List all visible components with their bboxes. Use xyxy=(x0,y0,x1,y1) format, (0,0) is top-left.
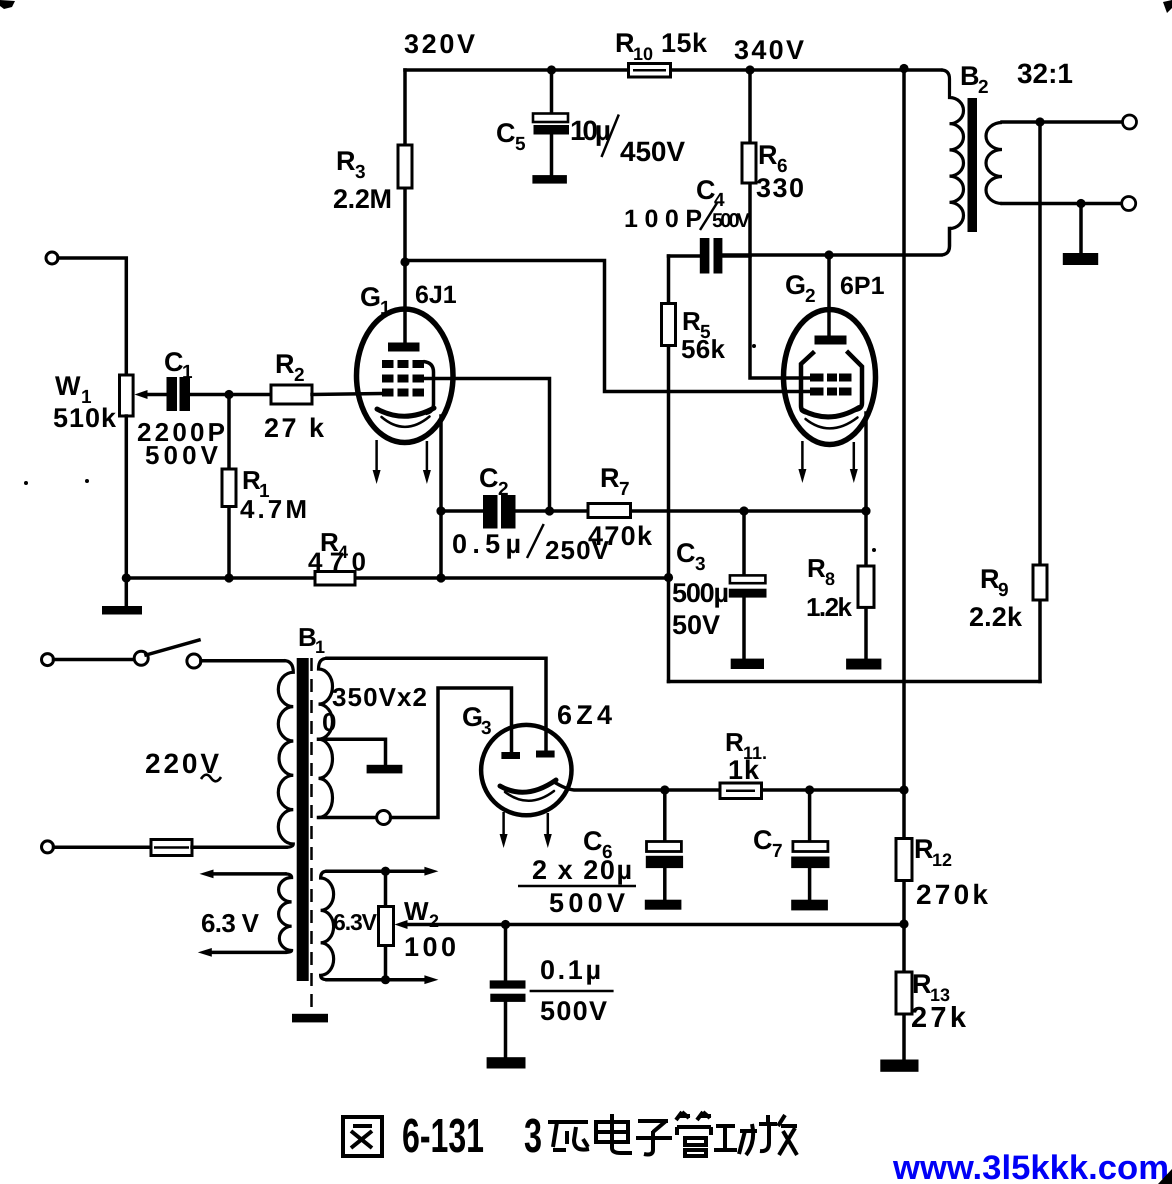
svg-text:R: R xyxy=(980,564,1000,594)
node: C7 junction xyxy=(805,785,814,794)
resistor R10 (in top rail) xyxy=(629,64,671,78)
ground: below R13 xyxy=(880,1060,918,1072)
svg-text:470: 470 xyxy=(308,547,366,577)
label: R12 270k xyxy=(914,834,988,910)
wire: G1 cathode lead down to cathode rail and ground rail xyxy=(439,416,443,578)
transformer B1 heater winding right 6.3V xyxy=(321,871,334,980)
label: B2 32:1 xyxy=(960,58,1073,98)
svg-text:15k: 15k xyxy=(661,28,708,58)
wire: HV center tap to ground xyxy=(319,739,386,765)
wire: G1 anode to G2 grid coupling run xyxy=(405,261,812,392)
svg-text:2.2k: 2.2k xyxy=(969,602,1023,632)
transformer B1 heater winding left 6.3V xyxy=(279,874,292,953)
svg-text:R: R xyxy=(600,463,620,493)
transformer B1 primary winding xyxy=(278,661,293,848)
tube G1 internal suppressor hook xyxy=(424,362,434,414)
node: G2 cathode/R8 junction xyxy=(861,506,870,515)
tube G1 cathode arc xyxy=(377,408,434,416)
label: R13 27k xyxy=(911,969,967,1034)
svg-text:W: W xyxy=(55,371,81,401)
capacitor C5 (electrolytic 10u/450V) xyxy=(533,70,569,175)
capacitor C1 (2200P/500V) xyxy=(167,377,191,411)
potentiometer W2 (hum balance 100) xyxy=(379,907,394,946)
svg-text:R: R xyxy=(336,146,356,176)
svg-text:500V: 500V xyxy=(712,210,751,232)
scan corner mark top-left xyxy=(0,0,15,9)
scan corner mark bottom-right xyxy=(1158,1169,1172,1184)
label: B1 xyxy=(298,622,325,657)
tube G3 cathode arc xyxy=(500,780,556,792)
svg-text:3: 3 xyxy=(481,718,492,739)
label: 6.3V right xyxy=(333,909,378,935)
label: R6 330 xyxy=(756,140,804,203)
svg-text:R: R xyxy=(914,834,934,864)
label: 6.3 V left xyxy=(201,908,260,938)
wire: R3 branch from 320V rail down to G1 anode xyxy=(403,70,407,262)
tube G2 heater lead right with arrow xyxy=(850,442,858,483)
resistor R11 (in B+ rail) xyxy=(720,783,762,799)
ground: below R8 xyxy=(846,659,881,670)
ground: below C6 xyxy=(645,900,682,910)
svg-text:C: C xyxy=(479,463,499,493)
label: R3 2.2M xyxy=(333,146,392,214)
svg-text:6J1: 6J1 xyxy=(415,281,457,309)
tube G1 grid dashes row 3 xyxy=(382,389,424,397)
node: W2 bottom junction xyxy=(381,975,390,984)
capacitor C6 (electrolytic 2x20u/500V) xyxy=(646,790,683,900)
svg-text:500V: 500V xyxy=(549,888,625,918)
resistor R4 (in ground rail) xyxy=(315,572,355,586)
resistor R3 xyxy=(398,145,412,188)
svg-text:6P1: 6P1 xyxy=(840,272,885,300)
label: R4 470 xyxy=(308,527,366,577)
svg-text:R: R xyxy=(758,140,778,170)
wire: fuse to B1 primary bottom xyxy=(192,846,286,850)
node: C2/screen junction xyxy=(545,506,554,515)
wire: HV bottom tap to connector xyxy=(319,816,377,820)
ground: below C7 xyxy=(791,900,828,911)
wire: G1 screen grid exit to cathode rail xyxy=(424,379,550,512)
svg-text:6.3V: 6.3V xyxy=(333,909,378,935)
wire: W2 body connections xyxy=(384,871,388,980)
wire: C1 to R2 xyxy=(190,393,271,397)
svg-text:C: C xyxy=(583,826,603,856)
tube G2 heater lead left with arrow xyxy=(798,441,806,483)
svg-text:R: R xyxy=(807,553,826,583)
wire: long vertical from top rail down to B+ rail xyxy=(902,69,906,791)
label: 0.1u/500V xyxy=(530,955,614,1026)
wire: ground rail under first stage xyxy=(126,576,668,580)
svg-text:3: 3 xyxy=(524,1110,542,1163)
tube G3 heater arc xyxy=(505,791,554,801)
tube G1 heater lead right with arrow xyxy=(423,441,431,484)
node: ground rail / feedback rail junction xyxy=(664,573,673,582)
svg-text:340V: 340V xyxy=(734,35,804,65)
node: feedback takeoff on secondary top xyxy=(1035,117,1044,126)
terminal: output bottom xyxy=(1122,197,1136,211)
tube G3 left anode plate xyxy=(501,752,520,759)
label: R10 15k xyxy=(615,28,708,64)
resistor R1 xyxy=(222,469,236,507)
transformer B1 core xyxy=(297,658,309,981)
svg-text:3: 3 xyxy=(695,554,706,575)
wire: bottom feedback rail xyxy=(669,680,1041,684)
ground: below 0.1u cap xyxy=(487,1057,526,1068)
svg-text:1: 1 xyxy=(380,298,391,319)
scan corner mark top-right xyxy=(1163,0,1172,13)
label: C2 0.5u/250V xyxy=(452,463,610,565)
transformer B1 core shield dashed line and ground xyxy=(292,658,328,1022)
svg-text:1.2k: 1.2k xyxy=(806,592,853,622)
svg-text:6.3 V: 6.3 V xyxy=(201,908,260,938)
label: R7 470k xyxy=(588,463,653,551)
node: G1 cathode return junction xyxy=(436,573,445,582)
capacitor C3 (electrolytic 500u/50V) xyxy=(729,511,767,659)
svg-text:B: B xyxy=(298,622,317,652)
svg-text:6Z4: 6Z4 xyxy=(557,700,612,730)
svg-text:9: 9 xyxy=(998,580,1009,601)
svg-text:1: 1 xyxy=(182,362,193,383)
resistor R2 xyxy=(271,385,312,404)
label: C5 10u/450V xyxy=(496,115,685,168)
tube G1 anode plate xyxy=(388,343,420,352)
wire: AC bottom lead to fuse xyxy=(54,846,152,850)
capacitor C4 (100P/500V) xyxy=(669,238,751,274)
svg-text:4: 4 xyxy=(714,190,725,211)
capacitor C7 (electrolytic) xyxy=(791,790,829,900)
node: W2 top junction xyxy=(381,867,390,876)
wire: switch to B1 primary top xyxy=(201,659,284,663)
svg-text:5: 5 xyxy=(515,134,526,155)
wire: G2 anode lead xyxy=(827,255,831,336)
caption: Chinese title 瓦电子管功放 (drawn strokes) xyxy=(548,1112,797,1156)
capacitor 0.1u/500V xyxy=(490,925,526,1058)
wire: right 6.3V top lead with arrow xyxy=(327,867,438,876)
transformer B2 core xyxy=(968,98,978,232)
label: G1 6J1 xyxy=(360,281,457,319)
wire: B+ rail from 6Z4 cathode xyxy=(554,782,904,790)
ground: below C3 xyxy=(731,659,764,669)
tube G2 6P1 envelope xyxy=(784,310,876,445)
label: 350Vx2 and 0 xyxy=(322,682,427,737)
tube G2 anode plate xyxy=(815,336,847,345)
tube G2 screen grid dashes xyxy=(810,374,852,382)
node: secondary bottom ground junction xyxy=(1076,199,1085,208)
transformer B2 primary winding xyxy=(941,70,964,229)
resistor R12 xyxy=(896,839,912,881)
label: R11 1k xyxy=(725,727,767,785)
wire: R8 cathode bias branch xyxy=(864,511,868,659)
svg-text:500µ: 500µ xyxy=(672,578,729,608)
node: G1 anode junction xyxy=(400,257,409,266)
label: R5 56k xyxy=(681,306,726,364)
wire: right 6.3V bottom lead with arrow xyxy=(327,975,438,984)
node: cathode/C2 junction xyxy=(436,506,445,515)
svg-text:C: C xyxy=(164,347,184,377)
wire: 320V top supply rail xyxy=(405,68,941,72)
svg-text:2: 2 xyxy=(429,911,439,931)
ground: below C5 xyxy=(532,175,567,184)
terminal: output top xyxy=(1123,115,1137,129)
watermark: www.3l5kkk.com xyxy=(892,1149,1169,1184)
svg-text:1: 1 xyxy=(315,637,325,657)
svg-text:27 k: 27 k xyxy=(264,413,325,443)
node: C6 junction xyxy=(660,785,669,794)
tube G2 control grid dashes xyxy=(810,388,852,396)
scan speck marks xyxy=(24,344,876,552)
svg-text:6-131: 6-131 xyxy=(402,1110,484,1163)
svg-text:50V: 50V xyxy=(672,610,720,640)
svg-text:0.1µ: 0.1µ xyxy=(540,955,601,985)
svg-text:350Vx2: 350Vx2 xyxy=(332,682,427,712)
label: C7 xyxy=(753,825,783,862)
svg-text:www.3l5kkk.com: www.3l5kkk.com xyxy=(892,1149,1169,1184)
label: R8 1.2k xyxy=(806,553,853,622)
svg-text:G: G xyxy=(360,282,381,312)
node: long vertical top junction xyxy=(899,64,908,73)
svg-text:10µ: 10µ xyxy=(570,115,611,146)
wire: W1 bottom to ground rail xyxy=(125,416,129,578)
svg-text:C: C xyxy=(496,118,516,148)
tube G3 heater lead left with arrow xyxy=(500,812,508,848)
label: 340V xyxy=(734,35,804,65)
caption: figure number 6-131 and 3 xyxy=(402,1110,542,1163)
svg-text:C: C xyxy=(676,538,696,568)
wire: B2 secondary bottom to output terminal xyxy=(1002,202,1122,206)
svg-text:2: 2 xyxy=(498,479,509,500)
wire: R9 feedback branch xyxy=(1038,122,1042,682)
svg-text:12: 12 xyxy=(932,850,952,870)
node: 340V junction xyxy=(745,65,754,74)
svg-text:0.5µ: 0.5µ xyxy=(452,529,521,559)
svg-text:W: W xyxy=(404,896,429,926)
fuse BX xyxy=(151,840,192,856)
svg-text:2: 2 xyxy=(978,77,989,98)
resistor R5 xyxy=(662,304,676,346)
svg-text:500V: 500V xyxy=(145,440,219,470)
wire: left 6.3V top lead with arrow xyxy=(200,870,286,879)
tube G1 grid dashes row 1 xyxy=(382,360,424,368)
wire: B2 secondary top to output terminal xyxy=(1002,120,1122,124)
label: R1 4.7M xyxy=(240,465,307,524)
capacitor C2 (0.5u/250V) xyxy=(483,495,516,529)
svg-text:510k: 510k xyxy=(53,403,117,433)
svg-text:R: R xyxy=(725,727,744,757)
tube G1 heater arc xyxy=(382,417,430,427)
svg-text:330: 330 xyxy=(756,173,804,203)
tube G1 6J1 envelope xyxy=(357,309,454,443)
label: 320V xyxy=(404,29,475,59)
tube G2 beam plate right xyxy=(847,351,863,410)
resistor R8 xyxy=(858,566,874,607)
svg-text:320V: 320V xyxy=(404,29,475,59)
svg-text:B: B xyxy=(960,61,980,91)
node: B+ rail / R12 junction xyxy=(899,785,908,794)
transformer B1 HV secondary winding 350Vx2 xyxy=(319,658,333,817)
terminal: HV bottom connector circle xyxy=(377,811,391,825)
svg-text:470k: 470k xyxy=(588,521,653,551)
svg-text:8: 8 xyxy=(825,569,835,589)
svg-text:500V: 500V xyxy=(540,996,607,1026)
node: W1 wiper arrow xyxy=(135,390,167,399)
node: C3 junction xyxy=(739,506,748,515)
wire: connector up to 6Z4 left anode xyxy=(391,688,512,818)
node: G2 anode junction xyxy=(824,250,833,259)
svg-text:7: 7 xyxy=(619,479,630,500)
wire: left 6.3V bottom lead with arrow xyxy=(198,948,285,957)
wire: 340V down through R6 to G2 screen grid xyxy=(750,70,812,378)
svg-text:27k: 27k xyxy=(911,1002,967,1034)
ground: main ground symbol left xyxy=(102,578,142,615)
svg-text:G: G xyxy=(785,270,806,300)
node: R1 bottom junction xyxy=(224,573,233,582)
label: W2 100 xyxy=(404,896,456,962)
svg-text:3: 3 xyxy=(355,162,366,183)
wire: R12 branch of long vertical xyxy=(902,790,906,924)
node: C1/R1/R2 junction xyxy=(224,390,233,399)
svg-text:7: 7 xyxy=(772,841,783,862)
node: 0.1u cap junction xyxy=(501,920,510,929)
tube G3 heater lead right with arrow xyxy=(544,813,552,848)
svg-text:0: 0 xyxy=(322,707,336,737)
svg-text:R: R xyxy=(682,306,701,336)
svg-text:R: R xyxy=(615,28,635,58)
resistor R7 xyxy=(588,504,631,518)
label: C1 2200P 500V xyxy=(137,347,225,470)
svg-text:56k: 56k xyxy=(681,334,726,364)
transformer B2 secondary winding xyxy=(986,123,1002,204)
wire: AC top lead to switch xyxy=(54,658,135,662)
label: R2 27k xyxy=(264,349,325,443)
node: W1 ground junction xyxy=(122,573,131,582)
svg-text:100: 100 xyxy=(404,932,456,962)
label: W1 510k xyxy=(53,371,117,433)
svg-text:C: C xyxy=(753,825,773,855)
svg-text:2: 2 xyxy=(805,286,816,307)
terminal: input xyxy=(46,252,58,264)
tube G3 right anode plate xyxy=(536,751,555,758)
terminal: AC input bottom xyxy=(42,841,54,853)
resistor R9 xyxy=(1033,565,1047,600)
svg-text:C: C xyxy=(696,175,716,205)
wire: R5 branch (C4 left plate down through R5 to bottom rail) xyxy=(667,256,671,682)
svg-text:4.7M: 4.7M xyxy=(240,494,307,524)
svg-text:2.2M: 2.2M xyxy=(333,184,392,214)
wire: G2 cathode lead down to rail xyxy=(864,413,868,511)
svg-text:2: 2 xyxy=(294,365,305,386)
ground: HV center tap xyxy=(367,765,403,774)
resistor R6 xyxy=(742,143,756,183)
wire: R2 to G1 control grid xyxy=(312,394,383,395)
wire: cathode rail with C2 and R7 xyxy=(441,509,866,513)
label: C6 2x20u/500V xyxy=(518,826,636,918)
svg-text:450V: 450V xyxy=(620,136,685,167)
svg-text:10: 10 xyxy=(633,44,653,64)
wire: G1 anode lead xyxy=(403,262,407,343)
wire: W2 wiper arrow to R12/R13 junction xyxy=(395,920,905,929)
label: R9 2.2k xyxy=(969,564,1023,632)
label: G2 6P1 xyxy=(785,270,885,307)
node: R12/R13/W2 wiper junction xyxy=(899,919,908,928)
label: C4 100P/500V xyxy=(624,175,751,233)
node: C5 top junction on rail xyxy=(547,65,556,74)
wire: B2 primary bottom to C4/G2 anode xyxy=(722,229,949,256)
resistor R13 xyxy=(896,972,912,1014)
wire: R13 branch to ground xyxy=(902,924,906,1060)
tube G2 beam plate left xyxy=(801,352,815,413)
wire: R1 grid leak branch xyxy=(227,395,231,579)
tube G1 heater lead left with arrow xyxy=(373,440,381,484)
tube G3 6Z4 envelope xyxy=(481,725,571,815)
label: G3 6Z4 xyxy=(462,700,612,739)
svg-text:R: R xyxy=(275,349,295,379)
svg-text:G: G xyxy=(462,702,483,732)
svg-text:1k: 1k xyxy=(728,755,760,785)
wire: input to W1 top xyxy=(58,258,126,375)
terminal: AC input top xyxy=(42,654,54,666)
tube G1 grid dashes row 2 xyxy=(382,375,424,383)
label: C3 500u 50V xyxy=(672,538,729,640)
wire: HV top to 6Z4 right anode xyxy=(327,658,546,751)
ground: B2 secondary xyxy=(1063,204,1098,266)
tube G2 heater arc xyxy=(806,418,858,429)
svg-text:R: R xyxy=(912,969,932,999)
svg-text:32:1: 32:1 xyxy=(1017,58,1073,89)
switch K (power switch) xyxy=(134,640,201,668)
tube G2 cathode arc xyxy=(802,408,859,417)
label: 220V~ xyxy=(145,748,221,781)
potentiometer W1 xyxy=(120,375,134,416)
caption: figure title 图 6-131 xyxy=(343,1117,382,1156)
